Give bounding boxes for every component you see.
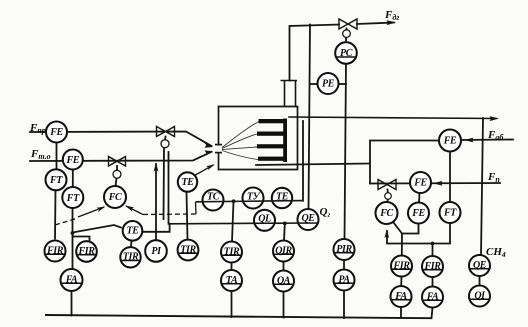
arrow FT feedback into FC2 (385, 229, 390, 238)
instrument PE (318, 73, 339, 94)
wire y233 horizontal to TE (73, 225, 122, 233)
wire TE2 arrow to furnace (195, 165, 214, 176)
valve V3 on flue gas line (339, 19, 357, 29)
instrument TIR1 (178, 240, 199, 261)
instrument FA2 (391, 286, 412, 307)
wire FE2 tap to FT2 (72, 170, 74, 188)
wire chimney pipe up (290, 25, 340, 81)
instrument FE3 (439, 130, 461, 152)
wire TC junction down to TIR3 (232, 202, 234, 242)
svg-text:QA: QA (277, 275, 291, 286)
instrument TC (203, 190, 224, 211)
instrument TE3 (272, 188, 292, 208)
wire dashed FT1 signal to FC1 (55, 218, 78, 225)
wire FIR4-FA3 (432, 277, 434, 287)
instrument TIR2 (120, 247, 140, 267)
valve V2 on Fт.о line (109, 157, 126, 167)
wire FE5 down left (402, 224, 419, 234)
wire FE3 down to FT (449, 152, 451, 203)
instrument FE2 (63, 150, 83, 170)
svg-text:FE: FE (443, 136, 457, 147)
wire dashed arrow segment into FC1 left (78, 207, 104, 217)
svg-text:Fп: Fп (487, 171, 500, 184)
wire FE1 tap down to FT1 (56, 142, 58, 170)
arrowheads (97, 20, 500, 238)
svg-text:PA: PA (338, 274, 350, 285)
actuator circle V1 (161, 140, 169, 148)
arrow Fаб into FE3 (464, 138, 474, 143)
arrow into FC1 right (125, 206, 134, 212)
wire bottom long line (46, 315, 431, 318)
svg-text:FIR: FIR (423, 261, 441, 272)
svg-text:TУ: TУ (247, 192, 261, 203)
instrument QA (273, 271, 294, 292)
svg-text:PC: PC (340, 48, 353, 59)
wire Fпр supply pipe (30, 132, 212, 147)
node TC-TУ junction (232, 199, 236, 203)
wire x168 down and right to QL (168, 152, 170, 224)
flame spread lines (222, 122, 259, 160)
wire coil outlet long line (289, 117, 496, 119)
wire PE left to duct (310, 83, 318, 85)
wire QA to bottom (283, 292, 285, 318)
wire Fп line (370, 182, 500, 185)
svg-text:QE: QE (473, 260, 487, 271)
arrow Fп into FE4 (433, 181, 443, 186)
wire FE3 left and down to Fп line (370, 141, 439, 184)
instrument FT2 (62, 187, 83, 208)
svg-text:Fдг: Fдг (384, 9, 399, 22)
wire Fаб line (461, 139, 513, 142)
svg-text:Qг: Qг (320, 206, 331, 219)
junction dots (71, 199, 435, 245)
svg-text:QI: QI (474, 290, 486, 301)
arrow flue gas exit (387, 20, 397, 25)
wire FT2 to FIR2 bracket (73, 237, 90, 242)
svg-text:TIR: TIR (180, 244, 196, 255)
svg-text:FT: FT (49, 175, 63, 186)
wire PA to bottom (343, 291, 345, 319)
instrument QL (254, 210, 275, 231)
svg-text:TE: TE (276, 192, 289, 203)
svg-text:QL: QL (258, 214, 271, 225)
instrument TE2 burner (178, 172, 197, 191)
node FT2 junction (71, 231, 75, 235)
svg-text:TE: TE (127, 226, 140, 237)
actuator circle V2 (113, 170, 121, 178)
svg-text:FE: FE (413, 178, 427, 189)
instrument QIR (273, 241, 294, 262)
burner port ticks (215, 145, 222, 153)
flow labels (29, 9, 506, 259)
wire connector down right edge (481, 118, 483, 255)
svg-text:TC: TC (207, 192, 220, 203)
instrument PA (334, 270, 355, 291)
wire valve4 actuator to FC2 (387, 199, 388, 202)
svg-text:FE: FE (49, 127, 63, 138)
instrument TУ (243, 188, 264, 209)
actuator circle V4 (385, 193, 392, 200)
wire TC row through-line (169, 201, 319, 224)
wire TE2 to TIR (187, 192, 188, 240)
wire junction down to QIR (283, 224, 286, 241)
svg-text:FIR: FIR (46, 245, 64, 256)
arrow coil outlet right (490, 116, 500, 121)
svg-text:Fпр: Fпр (29, 122, 46, 135)
svg-text:FC: FC (379, 208, 393, 219)
wire TA to bottom (231, 291, 233, 317)
instrument chord lines (board mounted) (45, 57, 489, 300)
instrument tags (46, 48, 487, 302)
wire TE3 up to coil outlet (302, 121, 304, 201)
svg-text:Fт.о: Fт.о (30, 148, 51, 161)
valve V4 on Fп line (378, 180, 396, 190)
wire QIR-QA (283, 262, 285, 271)
instrument PIR (334, 239, 355, 260)
node FIR4 junction (431, 242, 435, 246)
svg-text:FE: FE (66, 155, 80, 166)
wire PC down long vertical to PIR (345, 64, 347, 240)
wire valve1 stem (164, 137, 167, 140)
instrument FIR4 (422, 256, 443, 277)
instrument FT1 (46, 169, 67, 190)
instrument circles (45, 42, 491, 307)
wire FA3 bottom (432, 308, 433, 319)
wire TE right to x170 (142, 224, 170, 232)
arrow PI line up (154, 163, 159, 172)
instrument QE2 (469, 255, 490, 276)
wire FT2 down through junction (72, 208, 74, 269)
valve V1 on Fпр line (157, 127, 175, 137)
wire valve2 actuator to FC1 (116, 178, 117, 187)
wire PI up to pipe with arrow (155, 164, 157, 240)
instrument QI (469, 286, 490, 307)
instrument FC2 (376, 202, 398, 224)
instrument FA1 (61, 269, 83, 291)
instrument QE1 (298, 209, 319, 230)
svg-text:FT: FT (66, 193, 80, 204)
wire TIR3-TA (231, 263, 233, 271)
svg-text:PI: PI (151, 246, 162, 257)
svg-text:TIR: TIR (224, 246, 240, 257)
wire flue to valve3 exit arrow (357, 23, 394, 25)
wire coil return y165 (256, 164, 369, 166)
svg-text:QIR: QIR (275, 245, 292, 256)
svg-text:FA: FA (65, 274, 78, 285)
wire dashed TC signal to FC1 (143, 213, 196, 216)
svg-text:FIR: FIR (77, 246, 95, 257)
wire FT down to FC2 feedback (387, 223, 450, 244)
svg-text:FA: FA (394, 291, 407, 302)
svg-text:FIR: FIR (392, 260, 410, 271)
arrow Fпр into burner (204, 143, 213, 148)
instrument FT3 (440, 202, 461, 223)
arrow into FC1 left (97, 207, 106, 213)
wire valve3 stem (346, 29, 348, 31)
svg-text:TE: TE (182, 177, 195, 188)
svg-text:TIR: TIR (123, 252, 139, 263)
node QL-QE junction (283, 222, 287, 226)
wire FT1 down to FIR1 (54, 190, 57, 239)
instrument FA3 (422, 287, 443, 308)
svg-text:TA: TA (226, 275, 238, 286)
svg-text:FT: FT (443, 208, 457, 219)
furnace body (219, 107, 298, 170)
wire QE2-QI (479, 276, 481, 286)
coil serpentine (black comb) (257, 119, 287, 163)
instrument TE1 mid (123, 221, 143, 241)
arrow Fт.о into burner (204, 150, 213, 155)
instrument TIR3 (221, 242, 242, 263)
wire QL row through-line (169, 222, 319, 225)
instrument PI (145, 240, 167, 262)
wire PC stem (345, 37, 347, 42)
arrow TE2 into furnace (206, 164, 215, 170)
svg-text:Fаб: Fаб (487, 129, 504, 142)
instrument FE4 (410, 172, 431, 193)
instrument FIR3 (391, 256, 412, 277)
svg-text:PIR: PIR (336, 244, 352, 255)
wire PIR-PA (343, 260, 345, 270)
wire FE4 to FE5 (418, 193, 421, 203)
actuator circle V3 (343, 30, 351, 38)
svg-text:СН4: СН4 (486, 246, 506, 259)
wire TE to TIR2 (130, 241, 133, 248)
svg-text:FC: FC (108, 192, 122, 203)
wire PE right to x346 (339, 83, 347, 85)
wire Fт.о pipe (30, 152, 212, 161)
instrument FIR2 (76, 241, 97, 262)
svg-text:QE: QE (301, 213, 315, 224)
wire FA2 bottom (400, 307, 402, 318)
wire valve2 stem (116, 166, 118, 170)
svg-text:FE: FE (411, 208, 425, 219)
wire diagonal TC to dash (195, 202, 198, 214)
instrument TA (221, 270, 242, 291)
svg-text:FA: FA (426, 291, 439, 302)
instrument FC1 (104, 186, 126, 208)
wire FA1 to bottom line (71, 291, 73, 316)
wire valve1 actuator drop (163, 148, 166, 220)
instrument FE5 (408, 203, 429, 224)
wire flue duct x310 (309, 25, 311, 210)
chimney stack (281, 81, 298, 107)
wire dashed arrow segment into FC1 right (126, 206, 143, 215)
instrument FE1 (46, 122, 67, 143)
wire valve4 stem (387, 190, 389, 193)
wire FIR4 up (432, 244, 434, 257)
svg-text:PE: PE (322, 79, 335, 90)
dashed signal lines (55, 214, 196, 225)
wire FIR3-FA2 (400, 277, 402, 287)
instrument PC (335, 42, 357, 64)
wire FC2 diagonal to FIR3 (394, 223, 403, 256)
instrument FIR1 (45, 241, 66, 262)
